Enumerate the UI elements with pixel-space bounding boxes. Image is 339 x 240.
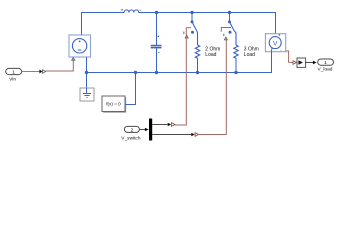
signal wire demux out1 <box>152 124 168 126</box>
node source-ground junction <box>85 71 88 74</box>
voltage source U1 <box>69 35 91 57</box>
svg-text:f(x) = 0: f(x) = 0 <box>106 102 121 107</box>
wire into converter <box>290 62 293 64</box>
output port 1 V_load <box>318 59 334 73</box>
svg-text:1: 1 <box>12 70 15 76</box>
capacitor C1 <box>151 13 162 73</box>
wire solver to bottom rail <box>125 73 136 105</box>
demux <box>149 119 152 141</box>
svg-text:Vin: Vin <box>9 76 16 82</box>
wire source to bottom rail <box>86 57 88 73</box>
wire bottom rail <box>87 52 272 73</box>
node capacitor bottom <box>155 71 158 74</box>
signal wire demux out2 <box>152 134 191 136</box>
arrowhead Vin <box>39 70 42 74</box>
PS input arrow out1 <box>172 123 176 127</box>
control port triangle of switch2 <box>224 37 227 40</box>
wire top rail right <box>139 12 276 14</box>
wire voltmeter riser <box>275 13 277 34</box>
switch S2 <box>223 13 236 46</box>
svg-text:1: 1 <box>324 60 327 66</box>
arrowhead out2 <box>191 133 195 137</box>
signal wire Vin to converter <box>22 71 40 73</box>
svg-text:V: V <box>273 40 278 47</box>
svg-text:2: 2 <box>131 127 134 133</box>
resistor R2 <box>234 45 238 58</box>
inductor L1 <box>124 10 139 13</box>
arrowhead out1 <box>168 123 172 127</box>
wire voltmeter to bottom rail <box>271 52 273 73</box>
PS stub inside switch2 <box>221 28 231 32</box>
node resistor2 bottom <box>234 71 237 74</box>
PS wire to switch2 control <box>199 40 227 135</box>
PS wire Vin to source control <box>46 60 74 71</box>
svg-text:Load: Load <box>244 52 255 58</box>
signal wire V_switch to demux <box>139 129 145 131</box>
ground (electrical reference) <box>80 88 94 101</box>
Simulink-PS converter (Vin) <box>43 70 46 74</box>
solver configuration block f(x)=0 <box>102 96 126 113</box>
node switch2 top rail <box>228 11 231 14</box>
voltmeter U2 <box>265 34 285 53</box>
arrowhead at out port <box>313 61 317 65</box>
input port 2 V_switch <box>121 126 141 141</box>
input port 1 Vin <box>6 68 22 82</box>
wire top rail left <box>81 12 124 14</box>
switch S1 <box>183 13 198 46</box>
PS-Simulink converter block <box>297 58 306 67</box>
arrowhead demux input <box>145 128 149 132</box>
node solver junction <box>134 71 137 74</box>
svg-text:V_load: V_load <box>318 67 333 73</box>
control port triangle of switch1 <box>185 35 188 38</box>
node capacitor top <box>155 11 158 14</box>
signal wire to out port <box>306 62 313 64</box>
wire ground riser <box>86 73 88 89</box>
PS input arrow of converter <box>293 61 296 65</box>
wire source riser <box>81 13 83 36</box>
node resistor1 bottom <box>196 71 199 74</box>
svg-text:V_switch: V_switch <box>121 135 141 141</box>
node switch1 top rail <box>190 11 193 14</box>
PS wire to switch1 control <box>175 28 191 125</box>
svg-text:Load: Load <box>205 52 216 58</box>
PS input arrow out2 <box>195 133 199 137</box>
resistor R1 <box>195 45 199 58</box>
wire voltmeter PS output <box>286 51 291 62</box>
control port triangle of source <box>72 58 75 61</box>
